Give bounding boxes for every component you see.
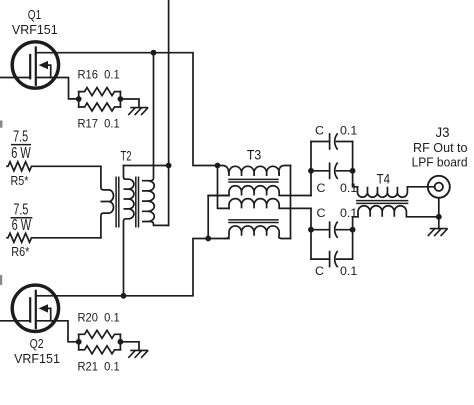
transistor Q1 xyxy=(12,42,58,88)
wire supply feed from top edge to T2 tap xyxy=(168,0,170,225)
wire Q1 source to R16 xyxy=(36,78,79,99)
svg-text:T2: T2 xyxy=(121,148,132,164)
svg-text:R5*: R5* xyxy=(11,173,29,188)
svg-text:C: C xyxy=(315,123,324,137)
svg-text:VRF151: VRF151 xyxy=(12,23,58,37)
svg-text:6 W: 6 W xyxy=(12,217,32,234)
svg-text:0.1: 0.1 xyxy=(340,181,357,195)
node J3 ground junction xyxy=(436,214,442,220)
wire Q1 gate lead xyxy=(0,77,30,79)
T3 core 1 xyxy=(229,179,278,182)
wire cap rail right lower xyxy=(353,217,358,259)
svg-text:0.1: 0.1 xyxy=(340,264,357,278)
edge tab lower xyxy=(0,275,2,285)
node rail left upper xyxy=(308,168,314,174)
node rail right upper xyxy=(350,168,356,174)
T3 winding 3 xyxy=(229,199,311,209)
node rail right lower xyxy=(350,227,356,233)
svg-text:R16 0.1: R16 0.1 xyxy=(78,68,120,82)
node R20 right xyxy=(118,339,124,345)
capacitor C3 xyxy=(311,222,353,237)
T3 winding 1 xyxy=(218,166,291,177)
ground J3 xyxy=(428,229,447,236)
svg-text:0.1: 0.1 xyxy=(340,206,357,220)
wire Q2 drain to T3 bottom xyxy=(36,239,229,296)
T3 core 2 xyxy=(229,220,278,223)
T2 right winding xyxy=(142,53,169,226)
wire cap rail left lower xyxy=(310,208,312,259)
wire T3 winding 2 to bottom dot xyxy=(208,196,229,239)
T3 winding 4 xyxy=(225,226,291,239)
svg-text:Q1: Q1 xyxy=(28,7,42,22)
wire R20 to ground xyxy=(120,342,139,351)
T4 core xyxy=(357,201,408,204)
wire Q2 gate lead xyxy=(0,320,30,322)
wire Q1 drain to T3 top xyxy=(36,53,218,166)
wire T2 middle winding top link xyxy=(124,165,169,167)
wire R16 to ground xyxy=(120,99,139,108)
ground R16 xyxy=(129,108,148,115)
fraction bar R6 xyxy=(11,217,31,219)
node R16 right xyxy=(118,96,124,102)
resistor R5 xyxy=(7,162,101,171)
svg-text:LPF board: LPF board xyxy=(412,154,468,169)
capacitor C1 xyxy=(311,134,353,149)
svg-text:C: C xyxy=(317,181,326,195)
node T3 bottom input xyxy=(205,236,211,242)
T3 right bracket xyxy=(290,166,292,239)
resistor R16 xyxy=(79,88,121,107)
connector J3 xyxy=(428,176,450,198)
svg-text:C: C xyxy=(315,264,324,278)
svg-text:0.1: 0.1 xyxy=(340,123,357,137)
wire Q2 source to R20 xyxy=(36,321,79,342)
resistor R21 xyxy=(79,346,121,354)
svg-text:T3: T3 xyxy=(247,147,261,163)
T3 winding 2 xyxy=(208,186,311,196)
svg-text:7.5: 7.5 xyxy=(13,128,28,145)
svg-text:R6*: R6* xyxy=(11,244,29,259)
node R16 left xyxy=(76,96,82,102)
node Q2 drain junction xyxy=(121,293,127,299)
resistor R20 xyxy=(79,330,121,350)
capacitor C4 xyxy=(311,252,353,267)
T4 winding bottom xyxy=(358,206,439,217)
wire T3 top dot to winding 3 xyxy=(218,166,230,209)
edge tab upper xyxy=(0,121,3,128)
resistor R6 xyxy=(7,233,101,242)
svg-text:RF Out to: RF Out to xyxy=(413,140,468,155)
wire cap rail right upper xyxy=(353,142,358,187)
capacitor C2 xyxy=(311,163,353,178)
svg-text:R20 0.1: R20 0.1 xyxy=(78,311,120,325)
transistor Q2 xyxy=(12,285,58,331)
svg-text:R21 0.1: R21 0.1 xyxy=(78,360,120,374)
T4 winding top xyxy=(358,187,435,197)
svg-text:J3: J3 xyxy=(436,124,450,140)
wire J3 shell to ground xyxy=(438,198,440,229)
wire cap rail left upper xyxy=(310,142,312,196)
svg-text:6 W: 6 W xyxy=(11,145,31,162)
svg-text:Q2: Q2 xyxy=(30,336,44,351)
svg-text:R17 0.1: R17 0.1 xyxy=(78,116,120,130)
node rail left lower xyxy=(308,227,314,233)
node T2 center tap xyxy=(166,163,172,169)
svg-text:C: C xyxy=(317,206,326,220)
resistor R17 xyxy=(79,103,121,111)
svg-text:VRF151: VRF151 xyxy=(14,352,60,366)
T2 core right xyxy=(136,177,139,226)
svg-text:T4: T4 xyxy=(377,170,391,186)
T2 middle winding xyxy=(124,166,134,296)
T2 core left xyxy=(116,177,119,226)
node T3 top input xyxy=(215,163,221,169)
node R20 left xyxy=(76,339,82,345)
T2 left winding lead top xyxy=(101,166,114,238)
node drain junction xyxy=(151,50,157,56)
fraction bar R5 xyxy=(12,144,31,146)
ground R20 xyxy=(129,350,148,357)
